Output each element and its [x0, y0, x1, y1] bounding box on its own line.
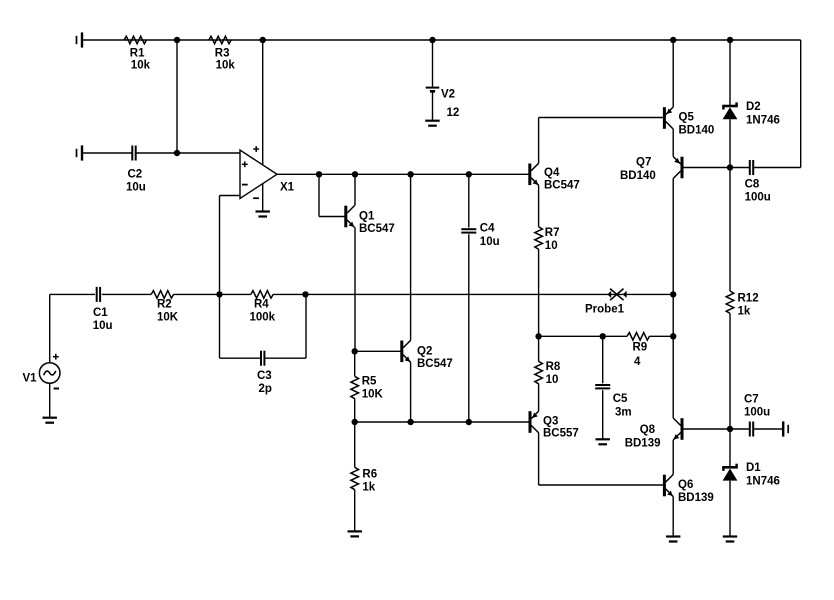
- svg-text:R12: R12: [738, 293, 759, 305]
- svg-text:R8: R8: [546, 361, 561, 373]
- svg-text:10K: 10K: [362, 389, 384, 401]
- svg-text:BD139: BD139: [625, 438, 661, 450]
- svg-text:C7: C7: [744, 394, 759, 406]
- svg-text:R1: R1: [130, 48, 145, 60]
- svg-text:V2: V2: [441, 89, 455, 101]
- svg-text:2p: 2p: [259, 383, 272, 395]
- svg-text:BC547: BC547: [359, 223, 395, 235]
- svg-text:C3: C3: [257, 370, 272, 382]
- svg-text:100u: 100u: [744, 407, 770, 419]
- svg-text:Q3: Q3: [543, 416, 558, 428]
- svg-text:Q1: Q1: [359, 211, 375, 223]
- svg-text:C8: C8: [745, 179, 760, 191]
- svg-text:R2: R2: [157, 299, 172, 311]
- svg-text:10: 10: [545, 240, 558, 252]
- svg-text:C5: C5: [613, 393, 628, 405]
- svg-text:Probe1: Probe1: [585, 304, 625, 316]
- svg-text:Q6: Q6: [678, 479, 693, 491]
- svg-text:BC557: BC557: [543, 428, 579, 440]
- svg-text:BC547: BC547: [544, 180, 580, 192]
- svg-text:100u: 100u: [745, 192, 771, 204]
- svg-text:10u: 10u: [480, 236, 500, 248]
- svg-text:12: 12: [447, 107, 460, 119]
- svg-text:Q2: Q2: [417, 346, 432, 358]
- svg-text:1k: 1k: [362, 482, 375, 494]
- svg-text:1N746: 1N746: [746, 476, 780, 488]
- svg-text:BD140: BD140: [679, 125, 715, 137]
- svg-text:Q4: Q4: [544, 167, 560, 179]
- svg-text:R5: R5: [362, 376, 377, 388]
- svg-text:BC547: BC547: [417, 358, 453, 370]
- svg-text:10k: 10k: [131, 60, 151, 72]
- svg-text:10K: 10K: [157, 312, 179, 324]
- svg-text:R4: R4: [254, 299, 269, 311]
- svg-text:X1: X1: [280, 182, 295, 194]
- svg-text:Q8: Q8: [640, 424, 656, 436]
- svg-text:1k: 1k: [738, 306, 751, 318]
- svg-text:D2: D2: [746, 101, 761, 113]
- svg-text:4: 4: [634, 356, 641, 368]
- svg-text:Q5: Q5: [679, 112, 695, 124]
- svg-text:Q7: Q7: [636, 157, 651, 169]
- svg-text:R6: R6: [362, 469, 377, 481]
- svg-text:10u: 10u: [93, 320, 113, 332]
- svg-text:3m: 3m: [615, 407, 632, 419]
- svg-text:10: 10: [546, 374, 559, 386]
- svg-text:R3: R3: [215, 48, 230, 60]
- svg-text:C1: C1: [93, 307, 108, 319]
- svg-text:R7: R7: [545, 227, 560, 239]
- svg-text:BD140: BD140: [620, 170, 656, 182]
- svg-text:V1: V1: [23, 373, 38, 385]
- svg-text:D1: D1: [746, 462, 761, 474]
- svg-text:1N746: 1N746: [746, 115, 780, 127]
- svg-text:C4: C4: [480, 223, 495, 235]
- svg-text:C2: C2: [128, 169, 143, 181]
- svg-text:R9: R9: [633, 342, 648, 354]
- svg-text:10u: 10u: [126, 182, 146, 194]
- svg-text:10k: 10k: [216, 60, 236, 72]
- svg-text:BD139: BD139: [678, 492, 714, 504]
- svg-text:100k: 100k: [250, 312, 276, 324]
